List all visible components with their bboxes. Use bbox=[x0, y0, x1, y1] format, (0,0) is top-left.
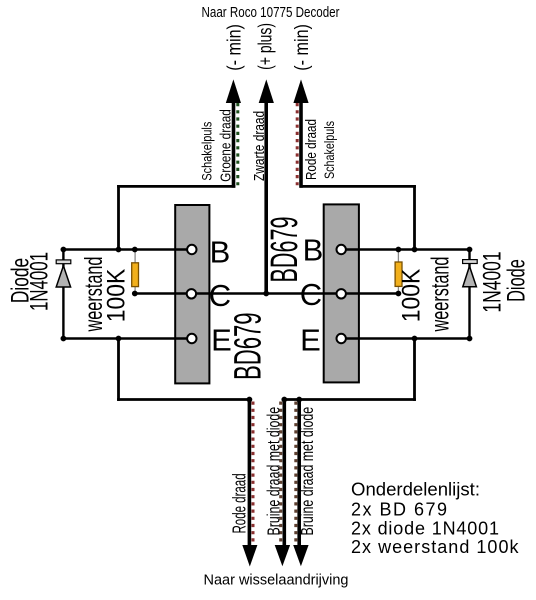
diode D1 triangle bbox=[56, 266, 70, 287]
svg-text:2x BD 679: 2x BD 679 bbox=[351, 500, 447, 520]
svg-text:B: B bbox=[303, 232, 324, 267]
diode D2 cathode bar bbox=[463, 260, 478, 264]
resistor R1 lead bbox=[134, 250, 136, 294]
arrowhead bottom 1 bbox=[242, 545, 257, 567]
junction dot R1 bottom bbox=[132, 291, 138, 297]
junction dot right rail B bbox=[412, 247, 418, 253]
wire: bottom arrow 1 stem bbox=[248, 400, 252, 547]
arrowhead top 3 bbox=[293, 79, 308, 103]
wire: left rail lower bbox=[117, 339, 120, 401]
junction dot R1 top bbox=[132, 247, 138, 253]
junction dot bottom arrow 2 bbox=[281, 397, 287, 403]
wire: C line bbox=[134, 292, 398, 295]
junction dot R2 top bbox=[396, 247, 402, 253]
svg-text:Schakelpuls: Schakelpuls bbox=[322, 121, 338, 179]
wire: left rail upper bbox=[117, 185, 120, 250]
wire: left green arrow stem bbox=[232, 101, 236, 188]
svg-text:Groene draad: Groene draad bbox=[217, 109, 234, 182]
pin circle Q1 B bbox=[187, 245, 196, 254]
transistor Q1 body (left BD679) bbox=[175, 205, 209, 383]
transistor Q2 body (right BD679) bbox=[324, 204, 359, 382]
resistor R1 body (weerstand 100K left) bbox=[132, 263, 139, 287]
red dashed wire marker top-right bbox=[296, 103, 299, 185]
svg-text:BD679: BD679 bbox=[262, 216, 305, 282]
svg-text:Rode draad: Rode draad bbox=[303, 119, 320, 180]
svg-text:(- min): (- min) bbox=[223, 24, 245, 71]
red dashed wire marker bottom-left bbox=[252, 402, 255, 544]
brown dashed wire marker bottom-right bbox=[294, 402, 297, 544]
arrowhead top 2 bbox=[259, 79, 274, 103]
junction dot left rail B bbox=[116, 247, 122, 253]
green dashed wire marker bbox=[236, 103, 239, 185]
junction dot diode D2 top bbox=[467, 247, 473, 253]
svg-text:C: C bbox=[209, 278, 231, 313]
junction dot diode D2 bottom bbox=[467, 336, 473, 342]
wire: top-left horizontal bbox=[117, 185, 235, 188]
pin circle Q1 E bbox=[187, 334, 196, 343]
svg-text:2x diode 1N4001: 2x diode 1N4001 bbox=[351, 519, 499, 539]
junction dot diode D1 top bbox=[61, 247, 67, 253]
diode D1 cathode bar bbox=[56, 260, 71, 264]
wire: right E line bbox=[341, 337, 471, 340]
resistor R2 body (weerstand 100K right) bbox=[395, 262, 402, 286]
svg-text:Schakelpuls: Schakelpuls bbox=[199, 122, 214, 181]
arrowhead bottom 2 bbox=[275, 545, 290, 566]
junction dot bottom arrow 1 bbox=[247, 397, 253, 403]
svg-text:BD679: BD679 bbox=[226, 312, 269, 380]
wire: bottom arrow 2 stem bbox=[282, 400, 286, 547]
pin circle Q2 B bbox=[337, 245, 346, 254]
wire: bottom-left rail bbox=[117, 398, 249, 401]
svg-text:(- min): (- min) bbox=[291, 24, 313, 71]
junction dot left rail E bbox=[116, 336, 122, 342]
wire: left diode branch bbox=[62, 250, 64, 339]
svg-text:100K: 100K bbox=[397, 269, 425, 322]
wire: right B line bbox=[341, 248, 471, 251]
pin circle Q1 C bbox=[187, 289, 196, 298]
wire: bottom-right rail bbox=[284, 398, 416, 401]
resistor R2 lead bbox=[397, 250, 399, 294]
svg-text:Bruine draad met diode: Bruine draad met diode bbox=[298, 407, 318, 536]
svg-text:(+ plus): (+ plus) bbox=[254, 23, 276, 70]
wire: bottom arrow 3 stem bbox=[297, 400, 301, 547]
svg-text:Zwarte draad: Zwarte draad bbox=[251, 111, 267, 181]
pin circle Q2 C bbox=[337, 289, 346, 298]
svg-text:weerstand: weerstand bbox=[427, 257, 454, 333]
svg-text:Rode draad: Rode draad bbox=[230, 473, 250, 533]
svg-text:1N4001: 1N4001 bbox=[25, 252, 53, 311]
diode D2 triangle bbox=[463, 266, 477, 287]
brown dashed wire marker bottom-middle bbox=[279, 402, 282, 544]
wire: left E line bbox=[62, 337, 192, 340]
wire: right red arrow stem bbox=[299, 101, 303, 188]
arrowhead bottom 3 bbox=[293, 545, 308, 566]
junction dot diode D1 bottom bbox=[61, 336, 67, 342]
svg-text:Bruine draad met diode: Bruine draad met diode bbox=[265, 407, 285, 536]
wire: right rail upper bbox=[413, 185, 416, 250]
svg-text:E: E bbox=[300, 323, 321, 358]
pin circle Q2 E bbox=[337, 334, 346, 343]
wire: top-right horizontal bbox=[300, 185, 416, 188]
wire: right rail lower bbox=[413, 339, 416, 401]
wire: left B line bbox=[62, 248, 192, 251]
arrowhead top 1 bbox=[226, 79, 241, 103]
svg-text:Diode: Diode bbox=[502, 259, 530, 302]
svg-text:B: B bbox=[210, 234, 231, 269]
junction dot center T bbox=[263, 291, 269, 297]
wire: right diode branch bbox=[468, 250, 470, 339]
svg-text:2x weerstand 100k: 2x weerstand 100k bbox=[351, 537, 520, 557]
svg-text:Naar Roco 10775 Decoder: Naar Roco 10775 Decoder bbox=[202, 4, 340, 21]
junction dot R2 bottom bbox=[396, 291, 402, 297]
svg-text:Onderdelenlijst:: Onderdelenlijst: bbox=[351, 480, 480, 500]
svg-text:Naar wisselaandrijving: Naar wisselaandrijving bbox=[204, 572, 349, 589]
junction dot bottom arrow 3 bbox=[296, 397, 302, 403]
wire: middle black arrow stem bbox=[264, 101, 268, 294]
junction dot right rail E bbox=[412, 336, 418, 342]
svg-text:100K: 100K bbox=[102, 269, 130, 322]
